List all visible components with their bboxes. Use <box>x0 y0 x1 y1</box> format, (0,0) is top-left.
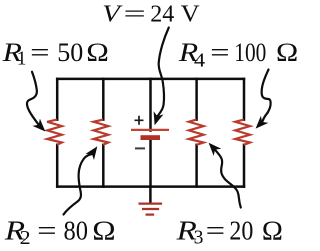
svg-text:50: 50 <box>57 38 83 67</box>
svg-text:=: = <box>37 216 57 246</box>
svg-text:Ω: Ω <box>262 215 283 245</box>
svg-text:4: 4 <box>194 50 206 71</box>
svg-text:Ω: Ω <box>92 216 115 246</box>
svg-text:=: = <box>30 38 50 67</box>
svg-text:2: 2 <box>20 228 31 249</box>
svg-text:20: 20 <box>229 215 253 245</box>
svg-text:=: = <box>124 1 146 27</box>
svg-text:100: 100 <box>234 38 266 67</box>
svg-text:Ω: Ω <box>86 38 109 67</box>
svg-text:1: 1 <box>17 48 27 69</box>
svg-text:=: = <box>210 38 230 67</box>
svg-text:3: 3 <box>194 228 204 249</box>
svg-text:Ω: Ω <box>276 38 298 67</box>
svg-text:=: = <box>206 215 226 245</box>
svg-text:24: 24 <box>150 1 174 27</box>
svg-text:80: 80 <box>64 216 89 246</box>
svg-text:V: V <box>181 1 201 27</box>
svg-text:V: V <box>102 1 122 27</box>
